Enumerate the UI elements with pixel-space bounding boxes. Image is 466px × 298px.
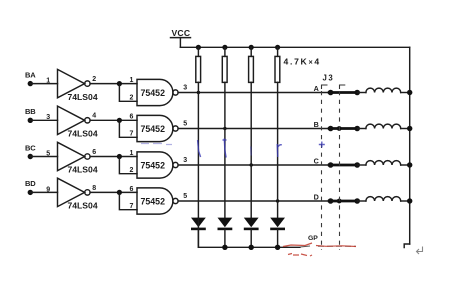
svg-text:75452: 75452: [141, 196, 166, 206]
svg-text:1: 1: [130, 77, 134, 84]
svg-text:D: D: [314, 192, 319, 201]
wire GP faded: [300, 246, 356, 247]
wire inverter out pin 4 to node: [90, 113, 137, 121]
resistor R4 4.7K: [275, 47, 280, 82]
svg-text:75452: 75452: [141, 88, 166, 98]
svg-text:4.7K×4: 4.7K×4: [284, 56, 321, 66]
power VCC: [171, 28, 191, 48]
node BB input terminal: [25, 107, 36, 123]
junction VCC rail col 2: [222, 45, 227, 50]
artifact return arrow: [417, 247, 423, 255]
wire to gate pin 2: [119, 150, 137, 174]
junction bus col2: [222, 245, 227, 250]
connector J3 contact row D: [328, 198, 360, 204]
wire gate out pin 3 row A: [178, 84, 330, 92]
svg-text:5: 5: [183, 193, 187, 200]
connector J3 contact row B: [328, 126, 360, 132]
svg-text:VCC: VCC: [172, 28, 191, 38]
svg-text:7: 7: [130, 131, 134, 138]
svg-text:6: 6: [130, 114, 134, 121]
inductor coil D: [357, 197, 412, 204]
wire BB to inverter pin 3: [30, 114, 57, 121]
svg-text:6: 6: [92, 149, 96, 156]
wire col 2 down: [224, 82, 226, 218]
wire inverter out pin 6 to node: [90, 149, 137, 157]
svg-text:5: 5: [46, 150, 50, 157]
svg-text:8: 8: [92, 185, 96, 192]
junction row B pullup: [223, 127, 226, 130]
resistor R3 4.7K: [249, 47, 254, 82]
svg-text:74LS04: 74LS04: [68, 129, 98, 139]
wire col 4 down: [277, 82, 279, 218]
gate 75452 row 3: [137, 152, 178, 178]
junction row A pullup: [197, 91, 200, 94]
wire to gate pin 2: [119, 77, 137, 102]
junction inverter-out row 1: [117, 81, 122, 86]
svg-text:75452: 75452: [141, 160, 166, 170]
connector J3 contact row A: [328, 90, 360, 96]
svg-text:BC: BC: [25, 143, 36, 152]
inverter 74LS04 row 1: [58, 69, 98, 101]
wire col 1 down: [197, 82, 199, 218]
svg-text:3: 3: [183, 157, 187, 164]
svg-text:A: A: [314, 84, 319, 93]
node BD input terminal: [25, 179, 36, 195]
node BA input terminal: [25, 70, 36, 86]
svg-text:BB: BB: [25, 107, 36, 116]
svg-text:74LS04: 74LS04: [68, 165, 98, 175]
inductor coil B: [357, 124, 412, 131]
artifact red scribble: [283, 243, 356, 256]
wire inverter out pin 2 to node: [90, 76, 137, 84]
svg-text:2: 2: [92, 76, 96, 83]
resistor R2 4.7K: [222, 47, 227, 82]
junction VCC rail col 1: [196, 45, 201, 50]
diode D4: [270, 218, 285, 248]
svg-text:3: 3: [183, 84, 187, 91]
junction bus col4: [275, 245, 280, 250]
svg-text:74LS04: 74LS04: [68, 201, 98, 211]
connector J3 contact row C: [328, 162, 360, 168]
svg-text:C: C: [314, 156, 319, 165]
svg-text:3: 3: [46, 114, 50, 121]
diode D3: [244, 218, 259, 248]
wire to gate pin 7: [119, 186, 137, 210]
svg-text:5: 5: [183, 120, 187, 127]
wire BD to inverter pin 9: [30, 186, 57, 193]
svg-text:BD: BD: [25, 179, 36, 188]
diode D1: [191, 218, 206, 248]
junction VCC rail col 4: [275, 45, 280, 50]
wire VCC rail: [180, 46, 409, 48]
node BC input terminal: [25, 143, 36, 159]
inductor coil A: [357, 88, 412, 95]
wire gate out pin 5 row B: [178, 120, 330, 128]
wire bottom-right hook: [404, 244, 410, 248]
inverter 74LS04 row 4: [58, 178, 98, 210]
inductor coil C: [357, 161, 412, 168]
gate 75452 row 4: [137, 188, 178, 214]
wire right vertical bus: [409, 47, 411, 244]
svg-text:7: 7: [130, 203, 134, 210]
gate 75452 row 1: [137, 79, 178, 105]
svg-text:GP: GP: [308, 235, 318, 242]
junction row C pullup: [250, 163, 253, 166]
svg-text:74LS04: 74LS04: [68, 92, 98, 102]
svg-text:75452: 75452: [141, 124, 166, 134]
inverter 74LS04 row 3: [58, 142, 98, 174]
wire BA to inverter pin 1: [30, 78, 57, 85]
junction bus col3: [249, 245, 254, 250]
junction inverter-out row 2: [117, 118, 122, 123]
svg-text:1: 1: [46, 78, 50, 85]
junction inverter-out row 4: [117, 190, 122, 195]
wire col 3 down: [250, 82, 252, 218]
wire BC to inverter pin 5: [30, 150, 57, 157]
svg-text:9: 9: [46, 186, 50, 193]
inverter 74LS04 row 2: [58, 106, 98, 138]
svg-text:2: 2: [130, 167, 134, 174]
wire diode return bus: [198, 218, 300, 247]
resistor R1 4.7K: [196, 47, 201, 82]
wire gate out pin 3 row C: [178, 157, 330, 165]
junction row D pullup: [276, 199, 279, 202]
junction inverter-out row 3: [117, 154, 122, 159]
junction VCC rail col 3: [249, 45, 254, 50]
svg-text:2: 2: [130, 95, 134, 102]
artifact blue watermark: [198, 139, 325, 158]
svg-text:B: B: [314, 120, 319, 129]
connector J3 outline: [322, 73, 346, 250]
svg-text:1: 1: [130, 150, 134, 157]
svg-text:J3: J3: [323, 73, 335, 82]
gate 75452 row 2: [137, 115, 178, 141]
wire gate out pin 5 row D: [178, 193, 330, 201]
wire inverter out pin 8 to node: [90, 185, 137, 193]
wire to gate pin 7: [119, 114, 137, 138]
svg-text:4: 4: [92, 113, 96, 120]
diode D2: [218, 218, 233, 248]
svg-text:6: 6: [130, 186, 134, 193]
svg-text:BA: BA: [25, 70, 36, 79]
